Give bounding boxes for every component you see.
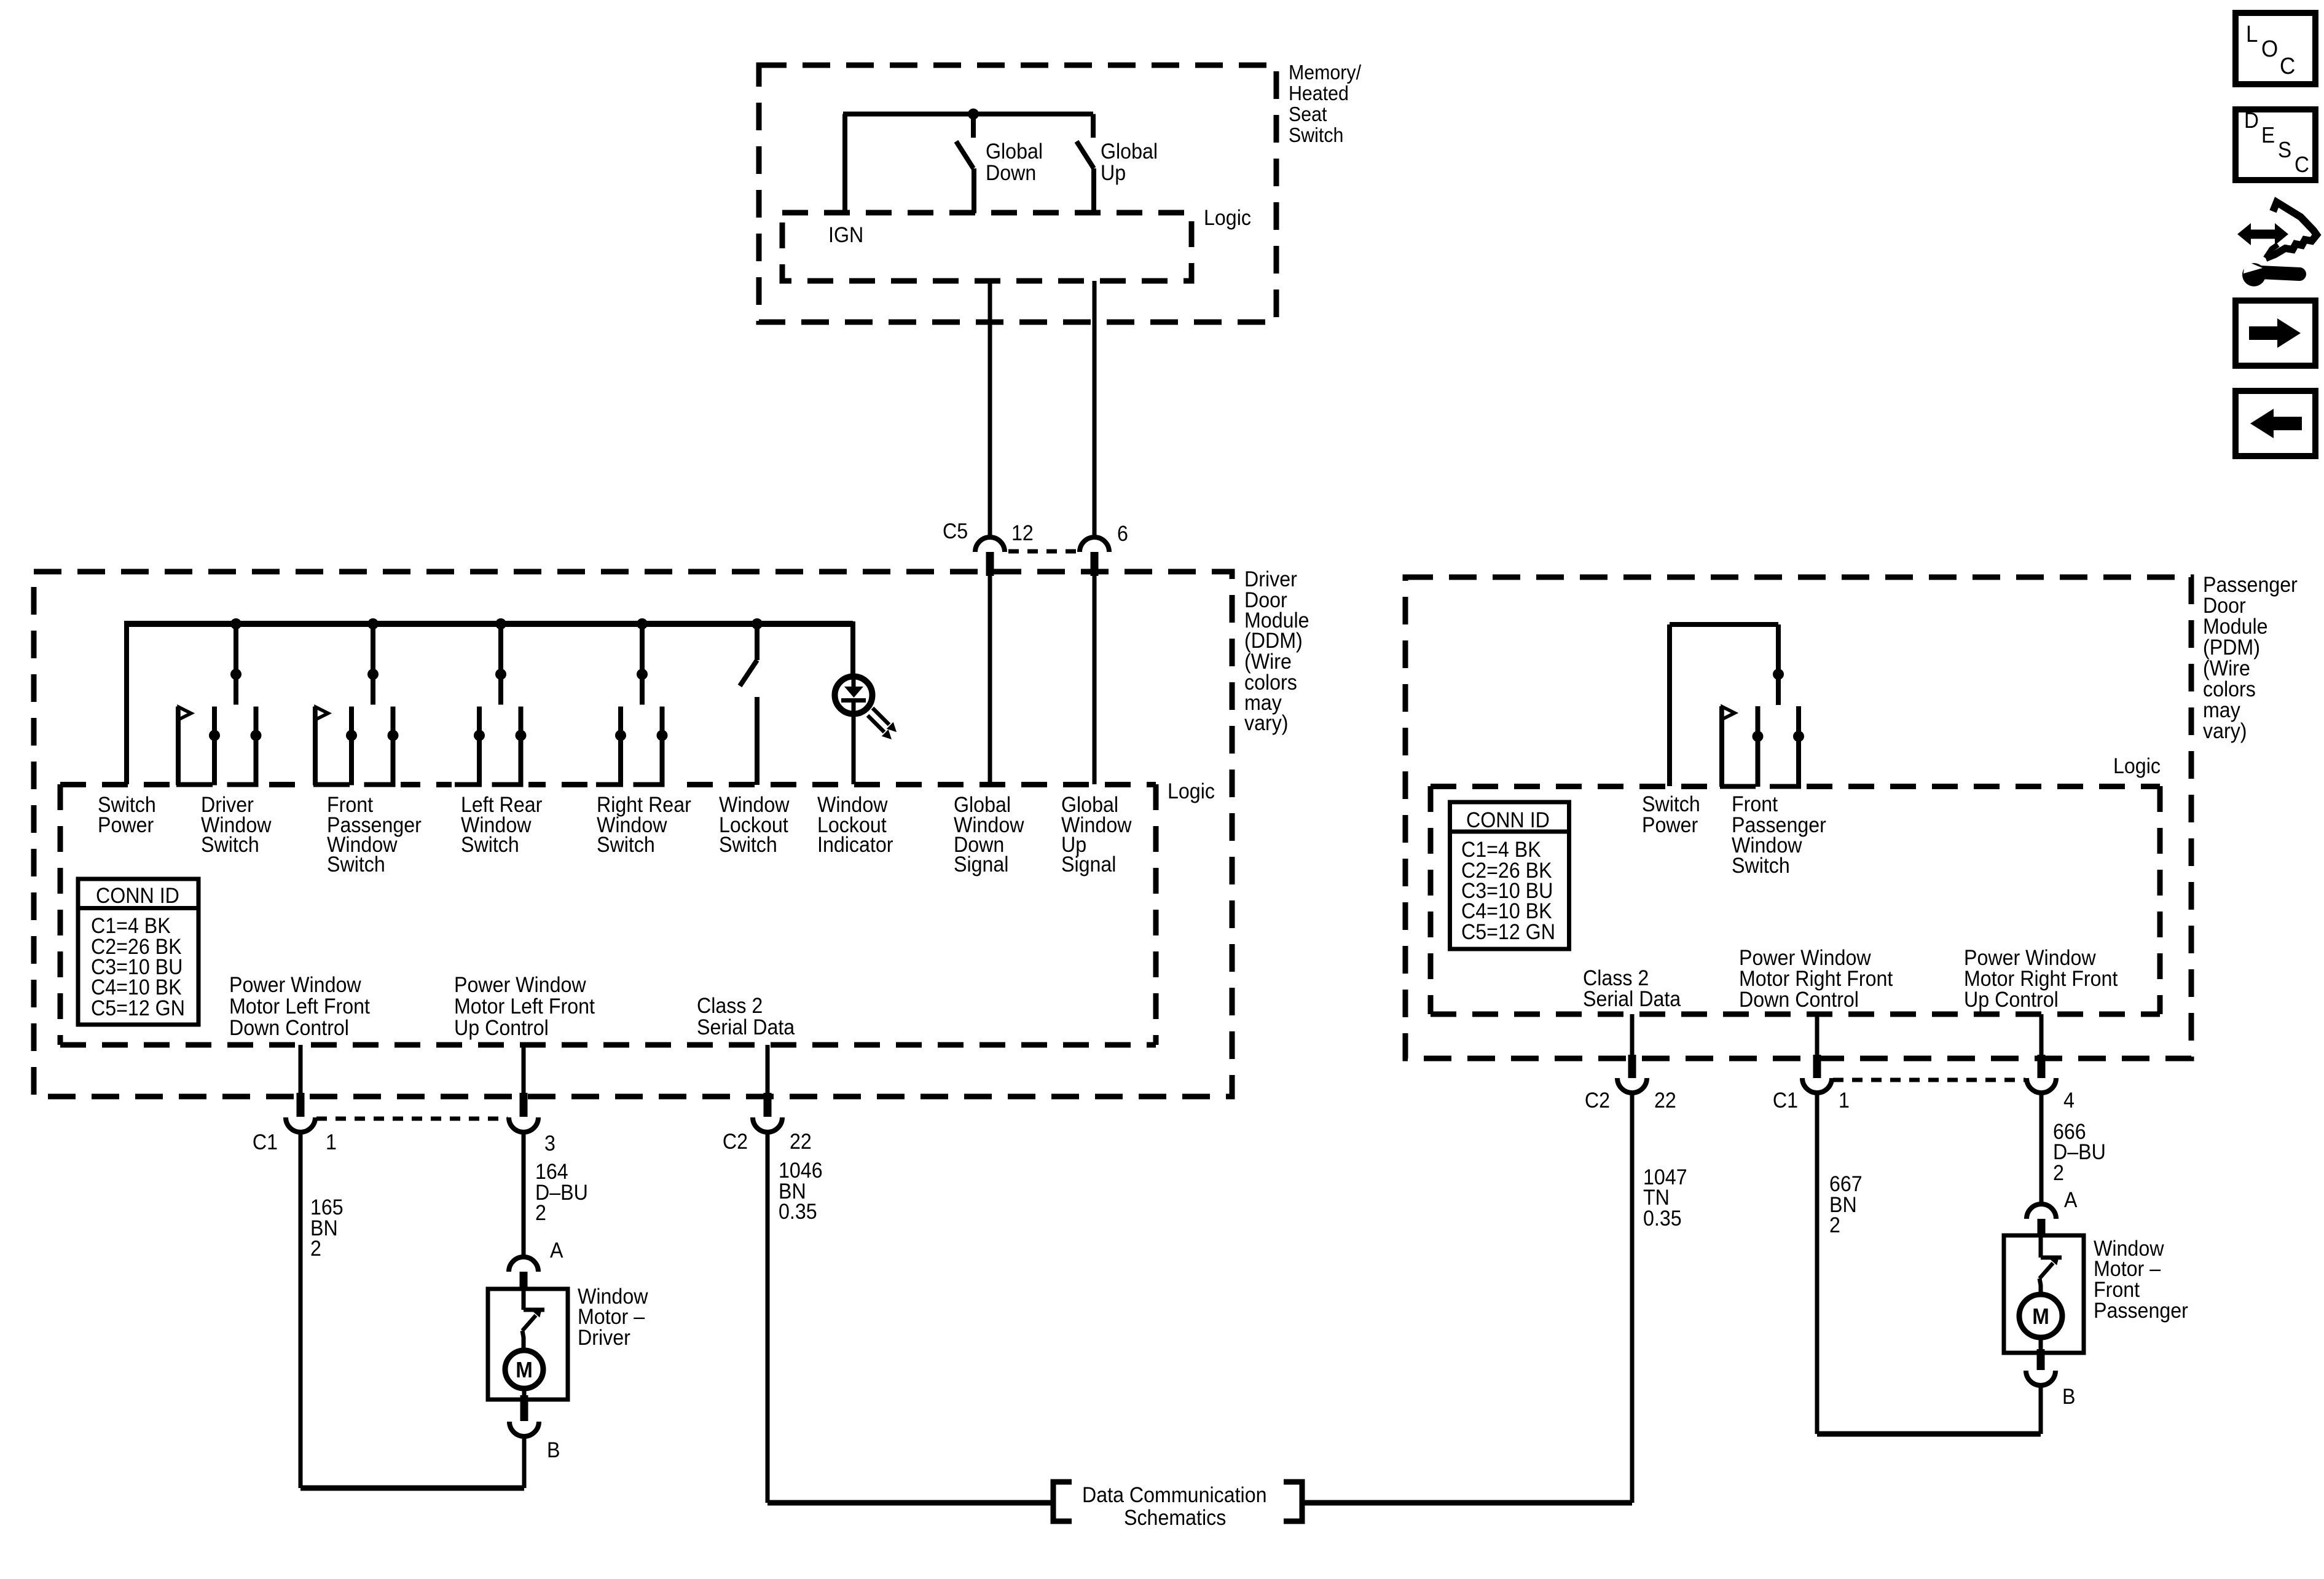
svg-text:Indicator: Indicator [817, 833, 893, 857]
svg-text:Door: Door [2203, 594, 2246, 618]
svg-text:IGN: IGN [828, 224, 863, 248]
svg-text:Global: Global [986, 140, 1043, 164]
svg-text:2: 2 [535, 1202, 546, 1226]
svg-text:667: 667 [1829, 1173, 1863, 1197]
svg-text:1046: 1046 [779, 1159, 823, 1183]
svg-text:C1=4 BK: C1=4 BK [1461, 838, 1541, 862]
svg-text:D: D [2244, 109, 2259, 133]
svg-text:4: 4 [2063, 1089, 2075, 1113]
svg-text:Switch: Switch [461, 833, 519, 857]
svg-text:Signal: Signal [954, 853, 1008, 877]
svg-text:2: 2 [1829, 1214, 1840, 1238]
svg-text:Switch: Switch [1732, 854, 1790, 878]
svg-text:22: 22 [1654, 1089, 1676, 1113]
svg-text:3: 3 [544, 1132, 555, 1156]
svg-text:Switch: Switch [1642, 793, 1700, 817]
svg-text:2: 2 [310, 1237, 321, 1261]
svg-text:Passenger: Passenger [2094, 1299, 2188, 1323]
svg-text:S: S [2278, 138, 2291, 163]
svg-text:12: 12 [1011, 522, 1034, 546]
svg-text:1: 1 [326, 1131, 337, 1155]
svg-text:(Wire: (Wire [1244, 650, 1292, 674]
svg-text:Front: Front [2094, 1278, 2140, 1302]
svg-text:165: 165 [310, 1196, 343, 1220]
svg-text:C5: C5 [943, 520, 968, 544]
svg-text:B: B [547, 1439, 560, 1463]
svg-text:1: 1 [1839, 1089, 1850, 1113]
svg-text:Down Control: Down Control [229, 1017, 349, 1041]
svg-text:Class 2: Class 2 [697, 994, 763, 1018]
svg-text:C4=10 BK: C4=10 BK [91, 976, 182, 1000]
svg-text:Switch: Switch [719, 833, 777, 857]
svg-text:(PDM): (PDM) [2203, 636, 2260, 660]
svg-text:B: B [2062, 1385, 2075, 1409]
svg-text:Power Window: Power Window [454, 974, 586, 998]
svg-text:E: E [2261, 124, 2275, 148]
svg-text:D–BU: D–BU [2053, 1141, 2106, 1165]
svg-text:6: 6 [1117, 522, 1128, 546]
svg-text:Power: Power [1642, 814, 1698, 838]
svg-text:Passenger: Passenger [2203, 573, 2298, 597]
svg-text:Power Window: Power Window [1739, 947, 1871, 971]
svg-text:Down: Down [986, 162, 1036, 186]
svg-text:L: L [2246, 21, 2258, 47]
svg-text:C5=12 GN: C5=12 GN [1461, 921, 1555, 945]
svg-text:C: C [2280, 53, 2295, 79]
svg-text:Logic: Logic [1168, 780, 1215, 804]
svg-text:C4=10 BK: C4=10 BK [1461, 900, 1552, 924]
svg-text:Motor Right Front: Motor Right Front [1739, 967, 1893, 991]
svg-text:Power: Power [98, 814, 154, 838]
svg-text:Power Window: Power Window [229, 974, 361, 998]
svg-text:C2: C2 [723, 1130, 748, 1154]
svg-text:Motor –: Motor – [578, 1305, 645, 1329]
svg-text:Up: Up [1101, 162, 1126, 186]
svg-text:Data Communication: Data Communication [1082, 1484, 1266, 1508]
svg-text:Down Control: Down Control [1739, 988, 1859, 1012]
svg-text:Logic: Logic [2113, 755, 2161, 779]
svg-text:Serial Data: Serial Data [697, 1016, 795, 1040]
svg-text:Seat: Seat [1289, 103, 1327, 125]
svg-text:Serial Data: Serial Data [1583, 988, 1681, 1012]
svg-text:Motor Left Front: Motor Left Front [454, 995, 595, 1019]
svg-text:Class 2: Class 2 [1583, 967, 1649, 991]
svg-text:Up Control: Up Control [1964, 988, 2059, 1012]
svg-text:Motor –: Motor – [2094, 1258, 2161, 1282]
svg-text:Switch: Switch [201, 833, 259, 857]
svg-text:2: 2 [2053, 1162, 2064, 1186]
svg-text:Signal: Signal [1061, 853, 1116, 877]
svg-text:C1: C1 [1773, 1089, 1798, 1113]
svg-text:0.35: 0.35 [1643, 1207, 1682, 1231]
svg-text:CONN ID: CONN ID [1466, 809, 1550, 833]
svg-text:Schematics: Schematics [1124, 1506, 1226, 1530]
svg-text:Switch: Switch [327, 853, 385, 877]
svg-text:colors: colors [2203, 678, 2256, 702]
svg-text:C1: C1 [253, 1131, 278, 1155]
svg-text:O: O [2261, 36, 2278, 62]
svg-text:C1=4 BK: C1=4 BK [91, 915, 171, 939]
svg-text:Switch: Switch [597, 833, 655, 857]
svg-text:0.35: 0.35 [779, 1200, 817, 1224]
svg-text:M: M [2032, 1305, 2049, 1329]
svg-text:A: A [2064, 1189, 2078, 1213]
svg-text:C: C [2295, 153, 2309, 178]
svg-text:Global: Global [1101, 140, 1158, 164]
svg-text:(DDM): (DDM) [1244, 629, 1303, 653]
svg-text:C2: C2 [1585, 1089, 1610, 1113]
svg-text:Driver: Driver [1244, 568, 1297, 592]
svg-text:Front: Front [1732, 793, 1778, 817]
svg-text:M: M [516, 1358, 533, 1383]
svg-text:CONN ID: CONN ID [96, 884, 179, 908]
svg-text:Motor Left Front: Motor Left Front [229, 995, 371, 1019]
svg-text:Up Control: Up Control [454, 1017, 549, 1041]
svg-text:may: may [2203, 699, 2240, 723]
svg-text:22: 22 [790, 1130, 812, 1154]
svg-text:164: 164 [535, 1160, 568, 1184]
svg-text:Switch: Switch [1289, 124, 1343, 146]
svg-text:Logic: Logic [1204, 207, 1251, 230]
svg-text:A: A [550, 1239, 563, 1263]
svg-text:vary): vary) [1244, 712, 1289, 736]
svg-text:TN: TN [1643, 1186, 1670, 1210]
svg-text:(Wire: (Wire [2203, 657, 2250, 681]
svg-text:Memory/: Memory/ [1289, 61, 1361, 84]
svg-text:Driver: Driver [578, 1326, 630, 1350]
svg-text:Module: Module [2203, 615, 2268, 639]
svg-text:vary): vary) [2203, 720, 2247, 744]
svg-text:C5=12 GN: C5=12 GN [91, 997, 185, 1021]
svg-text:Motor Right Front: Motor Right Front [1964, 967, 2118, 991]
svg-text:Power Window: Power Window [1964, 947, 2096, 971]
svg-text:Heated: Heated [1289, 82, 1349, 104]
